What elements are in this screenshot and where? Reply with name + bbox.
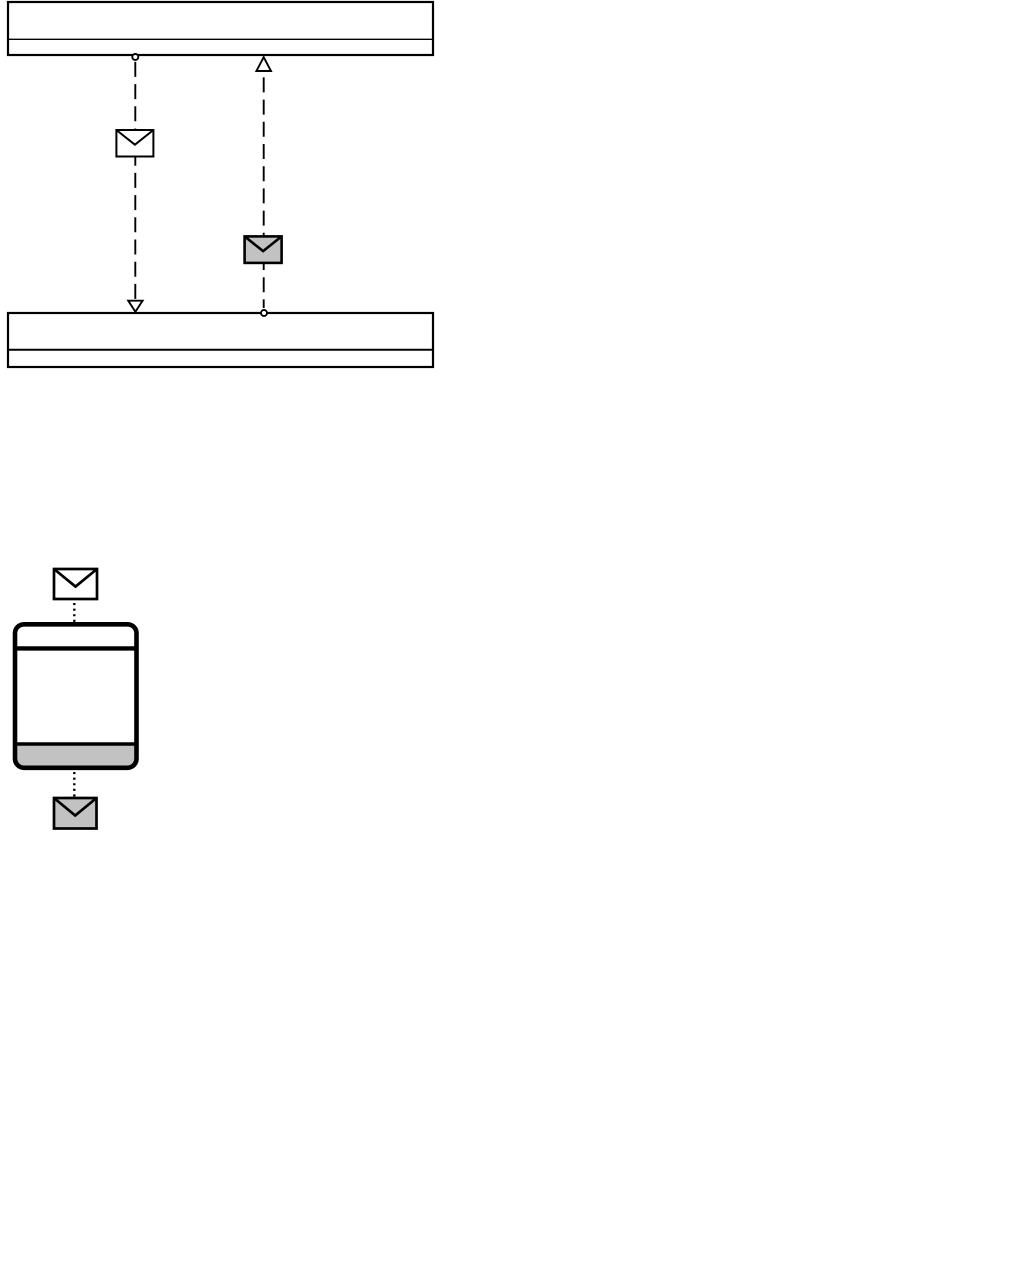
message flow right (dashed line) xyxy=(263,72,265,308)
message flow left (dashed line) xyxy=(134,59,136,301)
choreography task bottom band separator xyxy=(13,742,139,745)
message envelope right (gray) xyxy=(245,236,282,263)
choreography task outline xyxy=(15,624,137,768)
association dotted line bottom xyxy=(73,772,75,797)
message flow left arrowhead (open, down) xyxy=(128,301,142,312)
message flow left source circle xyxy=(132,54,138,60)
pool top (collapsed participant) xyxy=(8,2,433,55)
message flow right source circle xyxy=(261,310,267,316)
message flow right arrowhead (open, up) xyxy=(256,57,271,71)
association dotted line top xyxy=(73,603,75,622)
message envelope left (white) xyxy=(116,130,153,157)
choreography task bottom band (gray, non-initiating) xyxy=(15,744,137,768)
envelope below choreography task (gray) xyxy=(54,798,97,829)
choreography task top band separator xyxy=(13,646,139,650)
pool top inner lane line xyxy=(7,38,434,40)
envelope above choreography task (white) xyxy=(54,569,97,599)
choreography task body xyxy=(15,624,137,768)
pool bottom inner lane line xyxy=(7,349,434,351)
pool bottom (collapsed participant) xyxy=(8,313,433,367)
